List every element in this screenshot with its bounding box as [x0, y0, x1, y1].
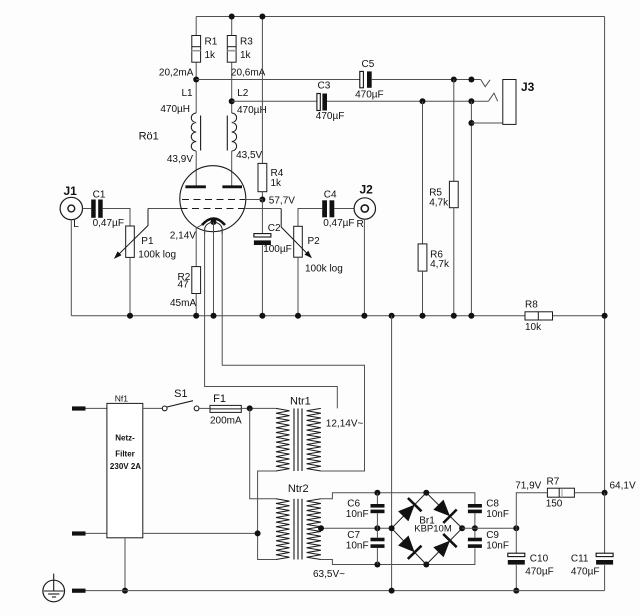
grid 1 dashed: [182, 199, 245, 201]
svg-text:C1: C1: [93, 190, 106, 201]
wire ground rail to earth: [391, 316, 393, 591]
ground rail: [71, 315, 525, 317]
node 57,7V: [259, 197, 265, 203]
node cathode ground: [211, 313, 217, 319]
fuse F1: [210, 405, 241, 412]
svg-text:12,14V~: 12,14V~: [326, 419, 364, 430]
node bridge AC bottom: [423, 562, 429, 568]
svg-text:470µF: 470µF: [571, 566, 600, 577]
resistor R8: [525, 312, 553, 320]
wire P1 to ground rail: [129, 257, 131, 315]
node P2 ground: [295, 313, 301, 319]
svg-text:C6: C6: [347, 499, 360, 510]
svg-text:10nF: 10nF: [486, 541, 509, 552]
wire right border vertical: [604, 17, 606, 493]
svg-text:P2: P2: [308, 236, 321, 247]
svg-text:F1: F1: [213, 393, 226, 405]
wire primary feed to Ntr2: [250, 408, 276, 498]
wire Ntr2 secondary top to bridge: [321, 493, 475, 504]
svg-text:R3: R3: [240, 37, 253, 48]
resistor R4: [261, 17, 263, 164]
node C6 top: [374, 490, 380, 496]
wire primary return: [258, 471, 276, 560]
svg-text:S1: S1: [174, 388, 187, 400]
earth rail: [86, 590, 605, 592]
transformer Ntr2 primary: [276, 499, 290, 560]
wire mains N to Nf1: [86, 532, 107, 534]
svg-text:C8: C8: [486, 499, 499, 510]
svg-text:470µF: 470µF: [525, 566, 554, 577]
terminal mains L: [72, 406, 86, 410]
node R4 top: [259, 14, 265, 20]
switch S1: [162, 406, 167, 411]
wire grid 2 to P2 wiper: [245, 208, 281, 210]
node ring junction: [468, 98, 474, 104]
wire R7 to 64,1V node: [574, 492, 604, 494]
capacitor C11: [604, 493, 606, 554]
wire L1 to left plate: [195, 151, 197, 186]
svg-text:C3: C3: [318, 81, 331, 92]
wire C3 to jack J3 ring: [327, 100, 488, 102]
wire Nf1 to earth rail: [124, 538, 126, 591]
wire C5 to jack J3 tip: [372, 79, 481, 81]
node 20,2mA: [193, 77, 199, 83]
wire Ntr2 center tap: [321, 527, 392, 529]
svg-text:Ntr1: Ntr1: [290, 396, 311, 408]
svg-text:57,7V: 57,7V: [269, 196, 295, 207]
P1 wiper arrow: [116, 209, 148, 257]
wire R3 to L2 node: [231, 62, 233, 113]
wire R2 to ground rail: [195, 294, 197, 316]
capacitor C9: [468, 538, 482, 542]
svg-text:470µH: 470µH: [160, 104, 190, 115]
wire J2 to ground rail: [363, 219, 365, 316]
node primary return: [255, 530, 261, 536]
node sleeve: [468, 120, 474, 126]
svg-text:43,9V: 43,9V: [167, 154, 193, 165]
node R2 ground: [193, 313, 199, 319]
svg-text:J1: J1: [64, 184, 78, 198]
node J2 ground: [361, 313, 367, 319]
anode left: [185, 185, 206, 188]
wire R1 to L1 node: [195, 62, 197, 113]
svg-text:Filter: Filter: [115, 449, 135, 458]
node C6 C7 junction: [374, 525, 380, 531]
wire ring to sleeve and ground: [470, 101, 472, 315]
svg-text:100k log: 100k log: [305, 264, 343, 275]
svg-text:L: L: [73, 219, 79, 230]
svg-text:2,14V: 2,14V: [170, 231, 196, 242]
wire C1 to P1: [103, 209, 130, 227]
wire Nf1 N to primaries: [143, 532, 258, 534]
wire cathode to R2: [196, 225, 202, 267]
svg-text:47: 47: [178, 280, 190, 291]
svg-text:1k: 1k: [271, 178, 283, 189]
resistor R1: [195, 17, 197, 36]
wire F1 to Ntr1 primary: [241, 407, 276, 409]
node primary feed: [247, 405, 253, 411]
diode Br1 upper left: [398, 505, 415, 522]
svg-text:4,7k: 4,7k: [429, 198, 449, 209]
terminal mains N: [72, 531, 86, 535]
svg-text:71,9V: 71,9V: [515, 481, 541, 492]
node sleeve ground: [468, 313, 474, 319]
capacitor C7: [371, 538, 385, 542]
svg-text:P1: P1: [141, 236, 154, 247]
svg-text:63,5V~: 63,5V~: [313, 569, 345, 580]
svg-text:470µF: 470µF: [316, 111, 345, 122]
resistor R2: [192, 267, 201, 294]
connector J2: [354, 198, 375, 219]
inductor L2: [232, 113, 237, 151]
potentiometer P2: [298, 209, 322, 227]
svg-text:10nF: 10nF: [346, 509, 369, 520]
wire sleeve to J3: [471, 122, 502, 124]
svg-text:10nF: 10nF: [486, 509, 509, 520]
node R5 ground: [451, 313, 457, 319]
svg-text:Rö1: Rö1: [139, 131, 159, 143]
svg-text:C4: C4: [324, 190, 337, 201]
svg-text:230V 2A: 230V 2A: [110, 462, 141, 471]
svg-text:L2: L2: [237, 88, 249, 99]
svg-text:0,47µF: 0,47µF: [93, 218, 124, 229]
capacitor C3: [232, 100, 317, 102]
svg-text:C5: C5: [362, 59, 375, 70]
svg-text:C2: C2: [268, 223, 281, 234]
svg-text:KBP10M: KBP10M: [414, 524, 452, 535]
wire C2 to ground rail: [261, 245, 263, 316]
heater arch: [205, 222, 223, 234]
transformer Ntr2 secondary: [307, 499, 321, 560]
node supply earth: [389, 588, 395, 594]
wire bridge plus to C10: [462, 527, 516, 529]
capacitor C1: [91, 200, 96, 218]
earth ground symbol: [43, 580, 65, 602]
capacitor C6: [371, 504, 385, 508]
node R8 right: [602, 313, 608, 319]
wire heater 1 to Ntr1: [205, 230, 338, 409]
svg-text:100µF: 100µF: [263, 244, 292, 255]
svg-text:R8: R8: [525, 300, 538, 311]
node C5/R5: [451, 77, 457, 83]
jack ring contact: [488, 93, 497, 101]
svg-text:64,1V: 64,1V: [610, 481, 636, 492]
capacitor C2: [261, 200, 263, 234]
capacitor C5: [196, 79, 360, 81]
svg-text:L1: L1: [182, 88, 194, 99]
mains filter Nf1: [107, 403, 143, 537]
node C10 earth: [513, 588, 519, 594]
wire J1 to C1: [83, 208, 92, 210]
bridge rectifier Br1: [392, 493, 463, 565]
svg-text:43,5V: 43,5V: [236, 150, 262, 161]
connector J3: [503, 80, 516, 125]
tube Rö1: [180, 166, 246, 232]
node C3/R6: [420, 98, 426, 104]
node R3 top: [229, 14, 235, 20]
wire C11 to earth rail: [604, 565, 606, 591]
anode right: [222, 185, 242, 188]
svg-text:0,47µF: 0,47µF: [323, 218, 354, 229]
wire P2 to ground rail: [297, 257, 299, 316]
node tip junction: [468, 77, 474, 83]
svg-text:C10: C10: [530, 553, 549, 564]
inductor L1: [191, 113, 196, 151]
wire C4 to J2: [334, 208, 354, 210]
node bridge AC top: [423, 490, 429, 496]
svg-text:20,2mA: 20,2mA: [159, 68, 194, 79]
resistor R5: [453, 80, 455, 182]
node 20,6mA: [229, 98, 235, 104]
node 64,1V: [602, 490, 608, 496]
svg-text:Netz-: Netz-: [115, 434, 135, 443]
svg-text:C7: C7: [347, 530, 360, 541]
node Nf1 earth: [122, 588, 128, 594]
transformer Ntr1 primary: [276, 408, 290, 471]
svg-text:R: R: [357, 219, 364, 230]
svg-text:1k: 1k: [240, 50, 252, 61]
svg-text:100k log: 100k log: [138, 249, 176, 260]
capacitor C8: [468, 504, 482, 508]
jack tip contact: [481, 80, 490, 87]
wire C10 to R7: [516, 493, 547, 529]
wire J1 to ground rail: [70, 220, 72, 316]
svg-text:10k: 10k: [525, 322, 542, 333]
wire R5 to ground rail: [453, 208, 455, 316]
svg-text:200mA: 200mA: [210, 416, 242, 427]
svg-text:C9: C9: [486, 530, 499, 541]
node C7 bottom: [374, 562, 380, 568]
svg-text:20,6mA: 20,6mA: [231, 68, 266, 79]
svg-text:4,7k: 4,7k: [430, 259, 450, 270]
svg-text:Nf1: Nf1: [115, 394, 129, 404]
svg-text:470µF: 470µF: [355, 90, 384, 101]
svg-text:R7: R7: [547, 476, 560, 487]
wire S1 to F1: [199, 407, 210, 409]
resistor R6: [422, 101, 424, 244]
wire Nf1 to S1: [143, 407, 163, 409]
node ground to supply: [389, 313, 395, 319]
svg-text:J2: J2: [360, 183, 374, 197]
svg-text:150: 150: [546, 499, 563, 510]
node P1 ground: [127, 313, 133, 319]
wire C10 to earth rail: [515, 565, 517, 591]
wire grid 2 to P1 wiper: [148, 208, 181, 210]
wire cathode to ground rail: [213, 222, 215, 316]
node center tap: [318, 525, 324, 531]
cathode: [202, 219, 225, 226]
capacitor C10: [515, 528, 517, 553]
node bridge minus: [389, 525, 395, 531]
svg-text:C11: C11: [571, 553, 589, 564]
wire R6 to ground rail: [422, 271, 424, 316]
diode Br1 upper right: [433, 500, 450, 517]
transformer Ntr2 core: [293, 499, 295, 560]
potentiometer P1: [126, 226, 135, 257]
svg-text:R1: R1: [205, 37, 218, 48]
capacitor C4: [322, 200, 327, 217]
transformer Ntr1 secondary: [307, 408, 321, 471]
resistor R7: [547, 488, 574, 497]
node cathode: [211, 219, 217, 225]
diode Br1 lower right: [433, 541, 450, 558]
wire L2 to right plate: [231, 151, 233, 186]
diode Br1 lower left: [398, 536, 415, 553]
terminal earth: [72, 589, 86, 593]
svg-text:J3: J3: [521, 80, 535, 94]
wire heater 2 to Ntr1: [222, 230, 364, 471]
svg-text:10nF: 10nF: [346, 541, 369, 552]
node C8 C9 junction: [472, 525, 478, 531]
resistor R3: [231, 17, 233, 36]
P2 wiper arrow: [281, 209, 309, 256]
wire Ntr2 secondary bottom to bridge: [321, 548, 475, 564]
wire grid 1 to 57,7V node: [245, 199, 262, 201]
connector J1: [60, 197, 82, 219]
svg-text:1k: 1k: [205, 50, 217, 61]
wire top supply rail: [196, 16, 604, 18]
node C10 top: [513, 525, 519, 531]
grid 2 dashed: [181, 208, 246, 210]
svg-text:Ntr2: Ntr2: [288, 483, 309, 495]
transformer Ntr1 core: [293, 408, 295, 471]
svg-text:45mA: 45mA: [170, 298, 196, 309]
node C2 ground: [259, 313, 265, 319]
node bridge plus: [459, 525, 465, 531]
wire R4 to 57,7V node: [261, 192, 263, 200]
wire mains L to Nf1: [86, 407, 107, 409]
node R6 ground: [420, 313, 426, 319]
